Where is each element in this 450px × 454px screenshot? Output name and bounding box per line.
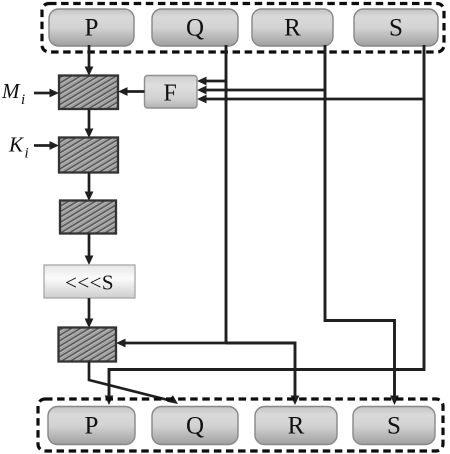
wire adder5 output to new Q [89,362,178,405]
svg-text:P: P [85,15,99,42]
register P (top) [49,9,134,46]
wire S branch into F [197,95,424,104]
wire R vertical and across to new S [325,45,395,398]
register S (top) [354,9,438,46]
wire K_i into adder2 [34,141,59,150]
svg-text:F: F [163,81,176,107]
rotate box <<<s [44,265,135,298]
svg-text:S: S [387,413,401,440]
register R (bottom) [255,407,337,445]
svg-text:Q: Q [186,413,204,440]
wire F output to adder1 [118,87,145,96]
bottom dashed register bank frame [38,399,443,451]
register R (top) [252,9,333,46]
register S (bottom) [353,407,435,445]
register Q (top) [152,9,238,46]
adder box 1 (hatched) [59,76,118,110]
wire S vertical and across to new P [109,45,424,398]
svg-text:S: S [389,15,403,42]
register Q (bottom) [152,407,238,445]
svg-text:P: P [85,413,99,440]
wire adder2 to adder3 [85,173,94,202]
wire M_i into adder1 [34,89,59,98]
adder box 5 (hatched) [59,328,117,362]
function box F [145,76,198,109]
wire rotate box to adder5 [85,298,94,328]
wire Q vertical [225,45,228,343]
register P (bottom) [48,407,135,445]
top dashed register bank frame [42,4,444,53]
adder box 2 (hatched) [59,138,118,173]
svg-text:R: R [284,15,301,42]
input M_i label [1,79,25,108]
input K_i label [8,133,29,162]
wire adder3 to rotate box [85,234,94,266]
wire R branch into F [197,86,325,95]
svg-text:Mi: Mi [1,79,25,108]
wire Q branch into F [197,77,226,86]
wire P to adder1 [85,45,94,76]
wire Q into adder5 and to new R [116,339,299,405]
svg-text:Q: Q [186,15,204,42]
adder box 3 (hatched) [60,201,116,234]
wire adder1 to adder2 [85,109,94,138]
svg-text:Ki: Ki [8,133,29,162]
svg-text:R: R [288,413,305,440]
svg-text:<<<S: <<<S [65,271,114,295]
